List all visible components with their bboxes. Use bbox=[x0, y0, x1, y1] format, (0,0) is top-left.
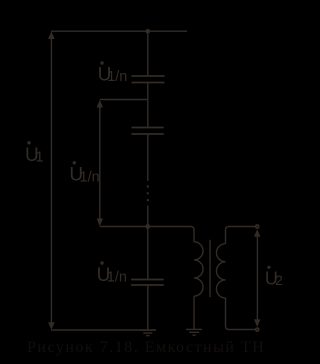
svg-text:1/n: 1/n bbox=[107, 69, 127, 85]
wire: U1 measuring line (left vertical with arrows) bbox=[50, 33, 52, 328]
svg-text:Рисунок 7.18. Емкостный ТН: Рисунок 7.18. Емкостный ТН bbox=[27, 339, 265, 356]
label U1/n (top capacitor) bbox=[98, 61, 128, 85]
capacitor C (second) bbox=[132, 127, 164, 129]
label U1/n (bottom capacitor) bbox=[97, 261, 127, 286]
transformer T primary winding bbox=[194, 242, 203, 296]
wire: primary bottom lead bbox=[193, 296, 195, 329]
capacitor C (bottom, U1/n) bbox=[131, 279, 164, 281]
svg-text:1/n: 1/n bbox=[80, 169, 100, 185]
wire: middle U1/n measuring line with arrows bbox=[99, 101, 101, 225]
wire: tap line to transformer primary bbox=[100, 227, 194, 242]
svg-text:1/n: 1/n bbox=[107, 270, 127, 286]
label U2 bbox=[265, 266, 283, 289]
svg-text:1: 1 bbox=[36, 149, 44, 165]
wire: top bus line bbox=[51, 30, 187, 32]
wire: U2 measuring line with arrows bbox=[256, 231, 258, 325]
node: junction dot on top bus bbox=[146, 29, 151, 34]
wire: segment between cap1 and cap2 bbox=[147, 83, 149, 126]
ground: transformer primary ground bbox=[186, 328, 202, 330]
wire: secondary top lead bbox=[226, 227, 256, 244]
wire: main capacitor string vertical, segment 1 bbox=[147, 31, 149, 75]
label U1/n (middle measure) bbox=[69, 161, 99, 186]
wire: bottom bus line bbox=[51, 329, 156, 331]
ground: main string ground bbox=[140, 329, 156, 331]
wire: segment below cap3 to bottom bus bbox=[147, 286, 149, 330]
wire: tap connector between cap1 and cap2 bbox=[100, 99, 148, 101]
node: secondary top terminal bbox=[256, 225, 259, 228]
wire: segment above tap junction bbox=[147, 206, 149, 279]
node: ellipsis dots (continuation of capacitor chain) bbox=[147, 185, 149, 187]
wire: segment below cap2 bbox=[147, 135, 149, 181]
node: secondary bottom terminal bbox=[256, 328, 259, 331]
transformer T secondary winding bbox=[216, 244, 225, 298]
wire: secondary bottom lead bbox=[226, 298, 256, 330]
svg-text:2: 2 bbox=[275, 273, 283, 288]
transformer T core bbox=[209, 240, 211, 297]
capacitor C (top, U1/n) bbox=[132, 75, 165, 77]
label U1 bbox=[25, 141, 44, 166]
node: junction dot at tap bbox=[145, 224, 150, 229]
